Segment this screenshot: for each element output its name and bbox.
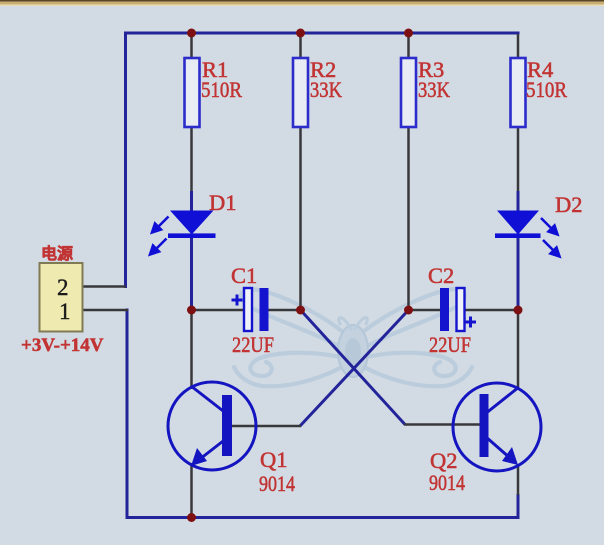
LED D1: [150, 190, 237, 255]
wire: stub top rail to R4: [517, 34, 520, 59]
wire: Q1 base horizontal: [231, 425, 301, 428]
wire: power pin 1 lead: [82, 309, 128, 312]
power connector J1: [21, 244, 104, 356]
transistor Q2: [429, 383, 541, 495]
svg-text:C2: C2: [428, 263, 454, 288]
wire: D2 cathode to node D: [517, 238, 520, 311]
wire: node A to Q1 collector: [190, 310, 193, 389]
wire: Q2 emitter to bottom rail: [517, 494, 520, 519]
junction dot node D: [514, 306, 523, 315]
wire: stub top rail to R2: [299, 34, 302, 59]
wire: D1 cathode to node A: [190, 238, 193, 311]
svg-text:Q1: Q1: [260, 447, 288, 472]
svg-text:C1: C1: [231, 263, 257, 288]
wire: stub top rail to R1: [190, 34, 193, 59]
transistor Q1: [168, 382, 295, 496]
junction dot node B: [296, 306, 305, 315]
wire: stub top rail to R3: [407, 34, 410, 59]
junction dot node C: [404, 306, 413, 315]
wire: C2 right plate to node D: [463, 309, 518, 312]
svg-text:22UF: 22UF: [429, 332, 471, 357]
capacitor C1: [231, 263, 274, 357]
LED D2: [495, 192, 583, 257]
wire: cross coupling node C to Q1 base bend: [300, 310, 409, 426]
wire: R2 bottom to node B: [299, 126, 302, 310]
capacitor C2: [428, 263, 476, 357]
svg-text:D1: D1: [209, 190, 237, 215]
wire: node A to C1 left plate: [192, 309, 246, 312]
svg-text:510R: 510R: [526, 77, 567, 102]
wire: Q2 base horizontal: [404, 423, 481, 426]
junction dot top R1: [187, 29, 196, 38]
wire: left vertical (top corner to power pin 2): [124, 32, 127, 289]
wire: Q1 emitter exit to bottom rail: [190, 463, 193, 517]
svg-text:9014: 9014: [429, 470, 465, 495]
svg-text:2: 2: [57, 275, 69, 300]
wire: power pin 2 lead: [82, 285, 126, 288]
resistor R2: [293, 57, 343, 127]
resistor R4: [511, 57, 568, 127]
resistor R3: [401, 57, 451, 127]
svg-text:22UF: 22UF: [232, 332, 274, 357]
wire: node D to Q2 collector: [517, 310, 520, 390]
wire: R4 bottom to D2 anode: [517, 126, 520, 192]
svg-text:电源: 电源: [41, 244, 73, 263]
wire: C1 right plate to node B: [267, 309, 301, 312]
svg-text:1: 1: [59, 299, 71, 324]
svg-text:9014: 9014: [259, 471, 295, 496]
junction dot bottom Q1 emitter: [187, 513, 196, 522]
junction dot node A: [187, 306, 196, 315]
wire: node C to C2 left plate: [409, 309, 442, 312]
wire: cross coupling node B to Q2 base bend: [301, 310, 406, 425]
svg-text:510R: 510R: [201, 77, 242, 102]
wire: Q2 emitter exit (dark): [517, 464, 520, 495]
wire: R1 bottom to D1 anode: [190, 126, 193, 192]
wire: R3 bottom to node C: [407, 126, 410, 310]
resistor R1: [185, 57, 243, 127]
wire: top horizontal rail: [124, 32, 520, 35]
junction dot top R3: [404, 29, 413, 38]
svg-text:+3V-+14V: +3V-+14V: [21, 335, 104, 356]
junction dot top R2: [296, 29, 305, 38]
wire: bottom horizontal rail: [126, 516, 520, 519]
wire: power pin 1 vertical down to bottom rail: [126, 309, 129, 520]
svg-text:33K: 33K: [310, 77, 343, 102]
svg-text:D2: D2: [555, 192, 583, 217]
svg-text:33K: 33K: [418, 77, 451, 102]
